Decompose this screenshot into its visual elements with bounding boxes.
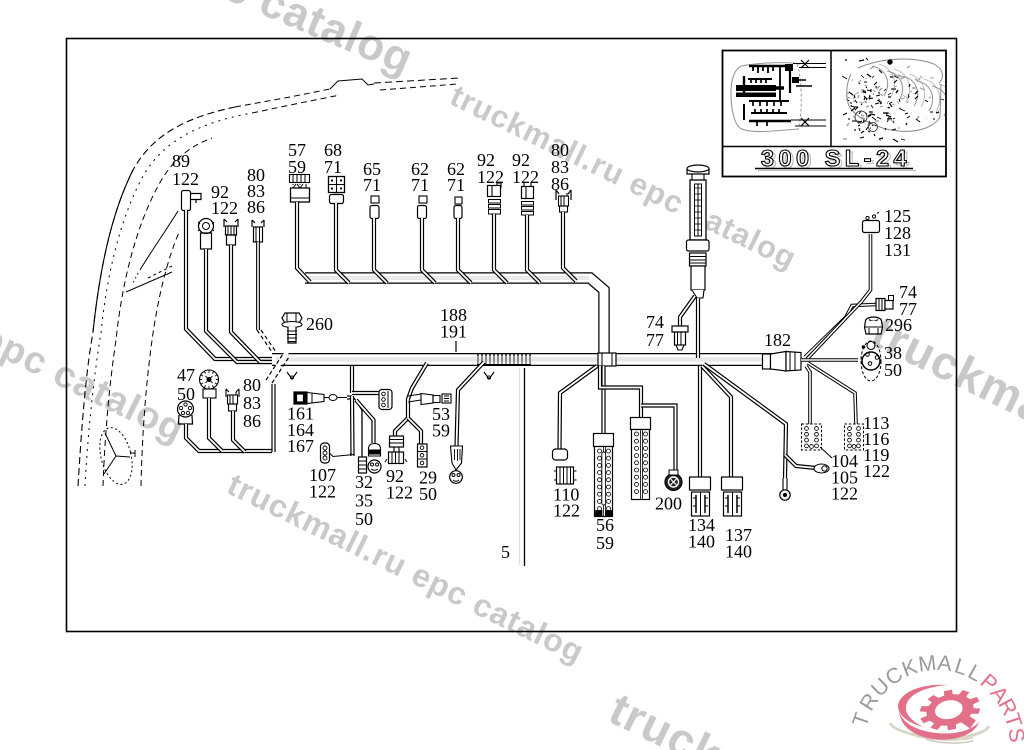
- svg-text:5: 5: [501, 542, 510, 562]
- wire from 92/122 third: [494, 214, 507, 283]
- riser to harness head: [271, 384, 275, 452]
- inset model box: [723, 51, 947, 177]
- branch wire 161 from harness: [350, 366, 354, 393]
- harness cable cut marks: [268, 352, 287, 381]
- wire to 56/59: [601, 366, 605, 434]
- wire from 89/122: [186, 210, 274, 359]
- svg-text:5359: 5359: [432, 404, 450, 441]
- logo pink swoosh upper band: [898, 685, 947, 727]
- svg-text:5659: 5659: [596, 515, 614, 553]
- svg-text:300 SL-24: 300 SL-24: [761, 145, 911, 171]
- svg-text:104105122: 104105122: [831, 451, 858, 504]
- wire down to 104 block: [806, 366, 810, 424]
- logo gear key tab: [961, 714, 976, 729]
- logo gear: [916, 684, 984, 735]
- wire to 200: [641, 406, 676, 474]
- svg-text:6271: 6271: [411, 159, 429, 195]
- harness corrugated section: [477, 354, 531, 356]
- svg-text:7477: 7477: [646, 312, 664, 350]
- branch wire 53 from harness: [408, 363, 427, 418]
- wire from 65/71: [374, 218, 387, 283]
- grommet small: [783, 478, 787, 490]
- svg-text:161164167: 161164167: [287, 404, 314, 457]
- wire from 68/71: [336, 203, 349, 283]
- svg-text:260: 260: [306, 314, 333, 334]
- car hood lines: [103, 138, 212, 486]
- connector 50 round: [178, 401, 194, 417]
- svg-text:200: 200: [655, 493, 682, 513]
- Mercedes star emblem: [94, 424, 137, 488]
- svg-text:182: 182: [764, 330, 791, 350]
- pointer 104: [820, 447, 832, 458]
- svg-text:107122: 107122: [309, 465, 336, 501]
- svg-text:808386: 808386: [551, 140, 569, 194]
- svg-text:S: S: [1004, 727, 1024, 744]
- wire from 92/122 fourth: [527, 215, 540, 283]
- wire to 32 thin: [354, 398, 362, 457]
- svg-text:134140: 134140: [688, 515, 715, 551]
- plug 110/122 detail: [557, 467, 574, 484]
- drawing border frame: [67, 39, 957, 632]
- svg-text:6871: 6871: [324, 140, 342, 177]
- wire coil to 74/77 left: [680, 296, 695, 326]
- wire from 47: [209, 398, 222, 451]
- wire 182 to 38/50: [801, 358, 858, 362]
- svg-text:M: M: [917, 651, 938, 677]
- logo pink swoosh lower band: [899, 711, 979, 740]
- main harness tube: [272, 353, 800, 366]
- diagnostic plug with round face: [451, 446, 463, 470]
- wire to 110/122: [560, 366, 598, 450]
- svg-text:808386: 808386: [243, 375, 261, 431]
- pointer line 107 to wire: [330, 454, 354, 457]
- svg-text:6271: 6271: [447, 159, 465, 195]
- svg-text:3850: 3850: [884, 343, 902, 380]
- mini connector 3-pin right of 161: [352, 391, 380, 395]
- wire from 80/83/86 upper: [231, 245, 276, 362]
- wire from 62/71 second: [458, 218, 471, 283]
- wire from 62/71 first: [422, 218, 435, 283]
- svg-text:296: 296: [885, 315, 912, 335]
- ignition coil connector tall: [687, 165, 709, 172]
- wire to 35/50 bulb: [356, 400, 374, 443]
- svg-text:2950: 2950: [419, 468, 437, 504]
- wire from 80/83/86 lower: [233, 411, 245, 452]
- svg-text:4750: 4750: [177, 365, 195, 404]
- svg-text:7477: 7477: [899, 282, 917, 319]
- junction fan under coil: [698, 366, 702, 477]
- socket face 35/50: [368, 460, 381, 473]
- wire 4th into harness cut: [256, 242, 260, 330]
- wire diag to 113 block: [808, 363, 856, 424]
- svg-text:323550: 323550: [355, 472, 373, 529]
- wire coil to junction: [696, 298, 700, 358]
- wire elbow to ring terminal: [785, 455, 816, 468]
- wire from 80/83/86 top right: [563, 212, 576, 281]
- junction block on harness: [598, 353, 616, 366]
- svg-text:125128131: 125128131: [884, 206, 911, 260]
- ring terminal 104 pointer: [814, 464, 829, 473]
- upper collector trunk: [305, 278, 604, 356]
- clip v-symbol mid: [484, 372, 494, 379]
- terminal strip unlabeled: [631, 418, 651, 430]
- wire from 57/59: [297, 202, 310, 282]
- svg-text:188191: 188191: [440, 305, 467, 342]
- svg-text:113116119122: 113116119122: [863, 413, 890, 481]
- bulb 35/50: [369, 444, 381, 457]
- coil collar: [687, 240, 710, 251]
- wire to 74/77 right: [805, 305, 876, 358]
- branch wire to diagnostic plug: [457, 362, 485, 446]
- wire junction 161 fan: [347, 395, 352, 399]
- Y split wires: [395, 418, 408, 437]
- wire to second strip: [600, 366, 641, 418]
- coil body lower: [691, 266, 705, 290]
- hood crease lines: [126, 272, 172, 292]
- wire to 107 vertical: [350, 396, 355, 456]
- svg-text:5759: 5759: [288, 140, 306, 177]
- wire from 92/122: [206, 249, 274, 362]
- clip v-symbol left: [287, 372, 297, 379]
- svg-text:808386: 808386: [247, 165, 265, 217]
- logo underline swash ellipses: [890, 723, 989, 738]
- inset engine drawing: [842, 58, 955, 142]
- svg-text:137140: 137140: [725, 525, 752, 561]
- connector row 4th small: [252, 220, 264, 227]
- wire from 50: [186, 424, 272, 451]
- wire to 125/128/131: [808, 234, 871, 358]
- svg-text:6571: 6571: [363, 159, 381, 195]
- svg-text:110122: 110122: [553, 484, 580, 520]
- car body outline: [78, 107, 235, 486]
